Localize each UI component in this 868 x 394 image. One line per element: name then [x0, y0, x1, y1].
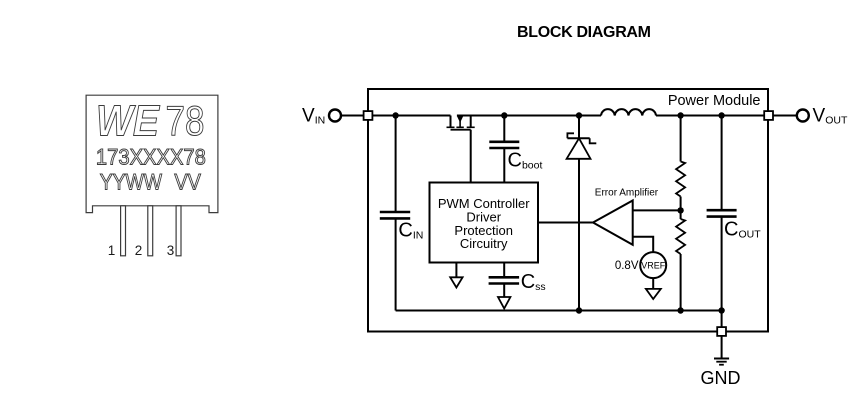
svg-text:VV: VV [174, 170, 201, 195]
svg-text:YYWW: YYWW [100, 170, 163, 195]
svg-text:1: 1 [108, 243, 116, 258]
svg-text:78: 78 [166, 97, 205, 144]
svg-text:3: 3 [167, 243, 175, 258]
svg-text:BLOCK DIAGRAM: BLOCK DIAGRAM [517, 24, 651, 41]
svg-text:0.8V: 0.8V [615, 260, 639, 272]
svg-text:GND: GND [701, 368, 741, 388]
svg-text:VREF: VREF [641, 260, 666, 270]
svg-text:2: 2 [135, 243, 143, 258]
svg-text:Circuitry: Circuitry [460, 236, 508, 251]
svg-text:Error Amplifier: Error Amplifier [595, 188, 659, 199]
svg-text:Power Module: Power Module [668, 93, 761, 109]
svg-text:WE: WE [96, 97, 160, 146]
svg-text:173XXXX78: 173XXXX78 [96, 145, 206, 170]
